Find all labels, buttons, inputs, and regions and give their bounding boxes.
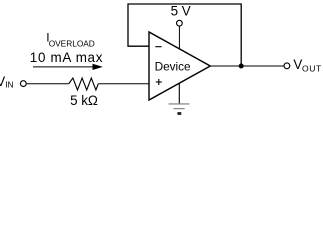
op-amp U1 Device xyxy=(149,32,210,100)
minus input pin sign xyxy=(155,46,161,48)
resistor R1 5 kOhm xyxy=(69,78,99,90)
svg-text:OUT: OUT xyxy=(302,63,322,73)
supply stem wire xyxy=(178,26,180,50)
label I_OVERLOAD xyxy=(46,31,95,49)
ground symbol xyxy=(169,104,190,114)
svg-text:IN: IN xyxy=(5,80,13,90)
wire R1 to +input xyxy=(98,83,149,85)
output wire xyxy=(210,65,283,67)
supply terminal xyxy=(177,20,183,26)
label VIN xyxy=(0,74,14,90)
terminal VIN xyxy=(20,81,26,87)
svg-text:5 kΩ: 5 kΩ xyxy=(70,93,98,108)
junction dot output node xyxy=(239,64,244,69)
ground stem wire xyxy=(178,83,180,103)
plus input pin sign xyxy=(156,79,162,85)
svg-text:5 V: 5 V xyxy=(171,3,191,18)
current direction arrow xyxy=(33,64,103,70)
svg-text:Device: Device xyxy=(155,60,191,74)
svg-text:10 mA max: 10 mA max xyxy=(30,50,103,65)
wire VIN to R1 xyxy=(27,83,69,85)
label VOUT xyxy=(293,57,322,73)
feedback wire loop (inverting input to output node) xyxy=(128,4,241,66)
terminal VOUT xyxy=(284,63,290,69)
svg-text:OVERLOAD: OVERLOAD xyxy=(49,39,95,49)
